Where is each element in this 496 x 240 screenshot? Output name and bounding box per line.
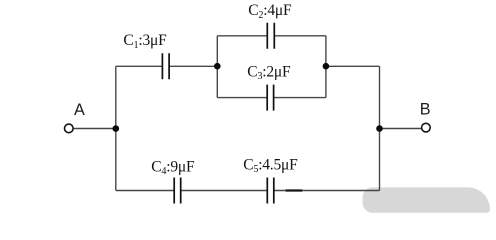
svg-text:A: A (74, 101, 85, 119)
svg-text:C2:4μF: C2:4μF (248, 2, 292, 21)
svg-text:C3:2μF: C3:2μF (247, 64, 291, 83)
svg-text:C4:9μF: C4:9μF (151, 159, 195, 178)
svg-text:C1:3μF: C1:3μF (123, 32, 167, 51)
svg-text:C5:4.5μF: C5:4.5μF (243, 156, 298, 175)
svg-text:B: B (420, 101, 431, 119)
